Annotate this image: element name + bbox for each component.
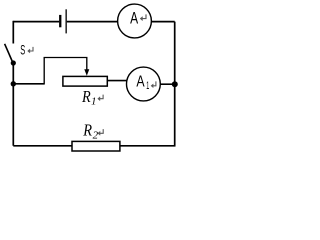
resistor R2 body [72, 141, 120, 151]
wire left vertical upper (to switch) [12, 21, 14, 44]
wire wiper loop up-and-over [44, 58, 87, 85]
battery B1 long thin plate [66, 9, 67, 33]
svg-text:R: R [82, 121, 92, 140]
op ammeter A circle U1 [118, 4, 152, 38]
wire bottom-left horizontal [13, 145, 72, 147]
svg-text:A: A [130, 10, 138, 28]
switch S hinge dot [11, 60, 16, 65]
wire R1 to ammeter A1 [108, 80, 128, 82]
resistor R1 body (rheostat) [63, 76, 107, 86]
wire bottom-right horizontal [120, 145, 176, 147]
svg-text:A: A [136, 73, 144, 90]
wire junction to rheostat wiper (up and over) [13, 83, 44, 85]
svg-text:2: 2 [93, 129, 99, 141]
svg-text:1: 1 [91, 96, 97, 108]
pilcrow return mark after A [140, 14, 146, 20]
pilcrow return mark after R2 [98, 129, 104, 135]
rheostat wiper arrowhead [84, 69, 89, 76]
svg-text:S: S [20, 42, 25, 58]
node junction dot left [11, 81, 16, 86]
wire top-left horizontal [13, 21, 59, 23]
wire ammeter A to top-right corner [151, 21, 174, 23]
pilcrow return mark after A1 [151, 81, 156, 87]
pilcrow return mark after R1 [98, 95, 104, 101]
wire left vertical lower [12, 63, 14, 146]
pilcrow return mark after S [28, 47, 34, 53]
svg-text:R: R [81, 87, 91, 106]
svg-text:1: 1 [146, 80, 149, 92]
wire A1 to right vertical [160, 83, 175, 85]
wire battery to ammeter A [67, 21, 118, 23]
battery B1 short thick plate [59, 15, 61, 27]
op ammeter A1 circle U2 [126, 67, 160, 101]
wire right vertical [174, 22, 176, 146]
switch S blade [5, 44, 13, 63]
node junction dot right [172, 81, 178, 87]
